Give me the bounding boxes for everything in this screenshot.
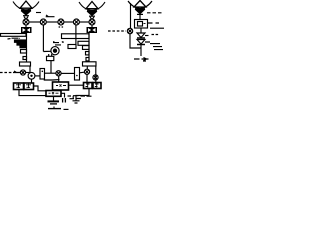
diode D4 [137,33,145,38]
wire bus segment 1 [29,21,40,23]
resistor R5 box [75,68,80,81]
wire M1 right stub [148,22,160,24]
trimmer tab TC1 [21,50,27,54]
wire X2 down to box A [58,76,60,82]
antenna ANT1 horn [13,1,39,10]
wire V1 down to battery B1 [31,79,33,83]
wire D5 down [140,45,142,57]
dashed link to X5 [108,30,126,32]
dashed AVC line with arrow [0,72,12,74]
wire right rail [150,27,164,29]
wire C4 to X3 [86,66,88,69]
trimmer tab TC2 [23,57,27,60]
battery B1 cell 2 [24,83,34,90]
transformer T1 primary block [21,27,32,33]
wire battery B2 stem [76,89,89,101]
coil bar LC (hollow) [68,45,76,49]
diode D1 on ANT1 lead [22,12,30,20]
resistor R3 box [20,62,31,66]
node X4 [93,75,98,80]
wire X2 to R5 [61,72,74,74]
wire T1 main vertical [26,33,28,62]
capacitor C5 plates [63,98,66,103]
battery B1 cell 1 [14,83,24,90]
wire R3 down to V1 [29,66,31,72]
wire M1 down to D4 [140,28,142,33]
meter M1 box [135,20,148,29]
wire VC4 down [75,25,77,45]
wire VC5 down [91,25,93,27]
rotor dashes under VC3 [59,26,64,28]
wire box A to battery B2 [69,84,84,86]
output arrow [134,58,149,62]
switch box B [46,91,61,97]
label marks [8,37,19,40]
coil L1 bar [1,34,27,37]
wire bus segment 3 [64,21,73,23]
wire box B right to C5 [61,93,65,97]
transformer T2 primary block [87,27,98,33]
node X5 [127,28,132,33]
ground GND2 [48,107,69,110]
battery B2 cell 1 [84,83,93,89]
wire ANT3 left lead [130,3,132,28]
trimmer tab TC5 [86,58,89,61]
tuning arrow label [46,15,55,17]
coil L1 tap bar 4 [20,46,26,48]
variable capacitor node VC2 [40,19,46,25]
wire bus segment 4 [79,21,89,23]
diode D2 on ANT2 lead [88,12,96,20]
crystal Y1 [47,54,54,61]
resistor R4 box [40,69,45,80]
wire R5 to X3 [80,71,85,74]
variable capacitor node VC5 [89,19,95,25]
antenna ANT3 horn [128,1,152,9]
stub D4 right [145,35,149,37]
trimmer tab TC3 [83,46,90,50]
grid annotation marks [53,41,61,45]
wire R4 to X2 [45,72,56,74]
dashed stub right of ANT3 [147,12,162,14]
mixer node X1 [20,70,25,75]
wire X1 to V1 [26,72,30,74]
wire crystal drop junction [50,61,52,74]
coil bar LB (solid) [78,41,89,45]
variable capacitor node VC4 [73,19,79,25]
wire R4 bottom to box A [44,79,59,80]
variable capacitor node VC1 [23,19,29,25]
diode D5 [137,40,145,45]
coil L1 tap bar 2 [15,40,27,42]
wire C4 right down [95,66,97,83]
wire V1 to R4 [35,75,40,77]
node X2 [56,71,61,76]
wire X3 down to battery [86,74,88,82]
capacitor C4 flat box [83,62,97,66]
annotation dashes row [68,95,92,98]
wire VC1 down [25,25,27,27]
wire X5 return loop [130,34,141,48]
wire bus segment 2 [46,21,58,23]
wire B1 to switch box B [34,86,47,91]
wire stub right of ANT1 [36,12,41,14]
switch box A [53,82,69,90]
antenna ANT2 horn [79,2,105,11]
oscillator tube V1 [28,72,35,79]
wire B1 stem to box B bottom [19,90,46,96]
diode D3 on ANT3 lead [136,10,144,14]
coil L1 tap bar 3 [17,43,26,45]
wire to detector tube [43,50,50,52]
wire D3 to meter M1 [139,15,141,20]
variable capacitor node VC3 [58,19,64,25]
stub D5 right with cap lines [145,42,163,50]
detector tube V2 [51,47,59,55]
node X3 [84,69,89,74]
trimmer tab TC4 [86,52,90,55]
wire VC2 down [42,25,44,52]
battery B2 cell 2 [93,83,101,89]
ground GND1 [48,96,60,104]
wire T2 secondary vertical [88,33,90,62]
coil bar LA (hollow) [62,34,90,39]
ground foot under B2 [73,101,80,103]
